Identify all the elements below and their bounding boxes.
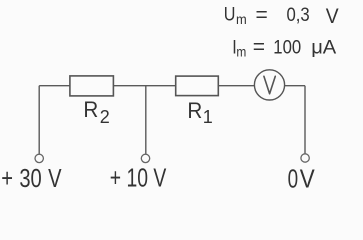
svg-text:V: V [326,5,339,28]
svg-text:100: 100 [273,37,301,58]
svg-text:V: V [300,165,315,194]
svg-text:+ 10 V: + 10 V [110,164,167,192]
svg-text:R: R [187,98,202,123]
svg-text:+ 30 V: + 30 V [1,164,62,193]
svg-text:0,3: 0,3 [287,4,310,25]
svg-text:=: = [256,4,268,27]
svg-text:2: 2 [100,107,110,127]
svg-text:R: R [83,97,98,122]
svg-text:m: m [236,43,246,59]
svg-text:=: = [253,35,265,58]
svg-text:1: 1 [203,107,213,127]
svg-text:μA: μA [311,37,337,58]
svg-text:m: m [236,12,247,28]
svg-text:0: 0 [288,165,299,193]
svg-text:U: U [224,3,236,25]
